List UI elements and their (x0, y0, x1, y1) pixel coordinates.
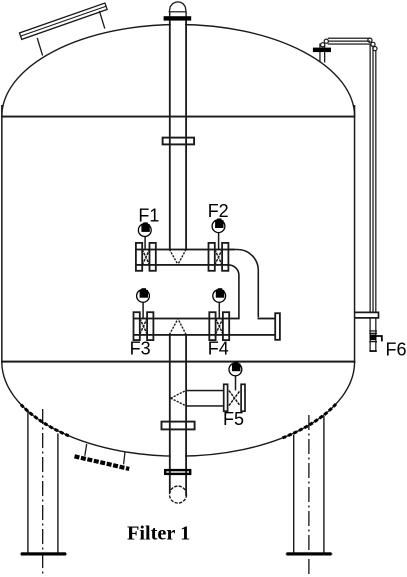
valve F3 left flange (134, 312, 140, 340)
F5 bolt circle (229, 363, 242, 376)
F5 branch pipe walls (186, 390, 224, 392)
row2 reducer cone (169, 319, 186, 335)
valve F5 gate cross (229, 391, 240, 406)
elbow from F2 inner wall (228, 265, 239, 318)
svg-text:F4: F4 (208, 339, 229, 359)
dome-to-flange pipe walls (169, 12, 170, 16)
bottom nozzle neck stubs (85, 444, 87, 456)
vessel top dished head (2, 24, 355, 116)
valve F5 right flange (241, 384, 245, 411)
top-left angled nozzle flange (19, 3, 107, 39)
F1 bolt circle (138, 224, 151, 237)
F6 union joint lines (369, 330, 377, 331)
elbow from F2 outer wall (228, 250, 258, 318)
left leg (28, 412, 58, 554)
downpipe lower flange (162, 422, 195, 430)
row1 pipe bottom wall (136, 264, 230, 266)
F3 stem (142, 302, 144, 318)
vessel bottom weld seam (1, 361, 355, 363)
svg-text:F6: F6 (386, 339, 407, 359)
valve F3 right flange (147, 312, 153, 340)
F6 riser above flange (319, 44, 320, 48)
F5 branch cone (171, 390, 187, 406)
right leg base plate (287, 552, 332, 555)
svg-text:F3: F3 (130, 339, 151, 359)
valve F4 right flange (223, 312, 229, 340)
right leg (294, 416, 324, 553)
F6 downcomer pipe walls (370, 44, 371, 313)
F6 vessel trunnion stub (355, 312, 379, 318)
svg-text:F5: F5 (223, 409, 244, 429)
F6 valve handle (376, 336, 382, 341)
valve F4 left flange (209, 312, 215, 340)
vessel shell left side line (1, 105, 2, 363)
svg-text:Filter 1: Filter 1 (127, 522, 190, 544)
F2 bolt circle (212, 220, 225, 233)
F6 small valve body (370, 335, 377, 341)
central riser dome cap (169, 2, 186, 12)
row2 pipe top wall (133, 318, 239, 320)
F6 horizontal run pipe (328, 38, 370, 39)
F3 bolt circle (137, 290, 150, 303)
F4 bolt circle (213, 290, 226, 303)
row1 pipe top wall (136, 249, 235, 251)
F4 stem (218, 302, 220, 318)
central riser pipe walls (169, 21, 171, 250)
central riser intermediate flange (163, 138, 195, 145)
central riser top flange (black band) (164, 16, 192, 20)
row2 pipe bottom wall (133, 334, 275, 336)
valve F1 left flange (136, 243, 142, 271)
svg-text:F2: F2 (208, 201, 229, 221)
F6 left elbow knuckles (324, 39, 328, 43)
row1 reducer V (169, 249, 186, 264)
F5 stem (235, 376, 237, 391)
row2 end flange (275, 313, 280, 340)
F6 pipe below trunnion (370, 318, 371, 351)
F6 right elbow knuckles (368, 38, 372, 42)
vessel shell right side line (354, 105, 356, 363)
valve F5 left flange (224, 384, 228, 411)
bottom dashed circle (170, 486, 187, 503)
downpipe black flange (165, 470, 190, 474)
F6 nozzle neck stub (319, 52, 320, 62)
valve F2 left flange (209, 243, 215, 271)
bottom nozzle hatched flange (75, 456, 130, 469)
F6 pipe end cap (369, 350, 376, 352)
valve F2 gate cross (215, 250, 222, 265)
mask head arcs behind central pipe (171, 21, 185, 28)
vessel bottom dished head (2, 362, 355, 456)
top-left nozzle neck stubs (37, 38, 42, 56)
valve F4 gate cross (216, 319, 223, 335)
valve F1 gate cross (142, 250, 149, 265)
vessel top weld seam (1, 116, 255, 118)
bottom downpipe walls (169, 336, 171, 494)
F6 joint line below valve (369, 341, 377, 342)
left leg centerline (42, 409, 44, 575)
valve F1 right flange (150, 243, 156, 271)
dome base line (169, 11, 187, 12)
F6 head nozzle black flange (313, 48, 331, 53)
right leg centerline (308, 415, 310, 575)
F1 stem (144, 237, 146, 250)
left leg base plate (21, 552, 66, 555)
F2 stem (218, 233, 220, 250)
valve F3 gate cross (140, 319, 147, 335)
valve F2 right flange (222, 243, 228, 271)
svg-text:F1: F1 (138, 206, 159, 226)
